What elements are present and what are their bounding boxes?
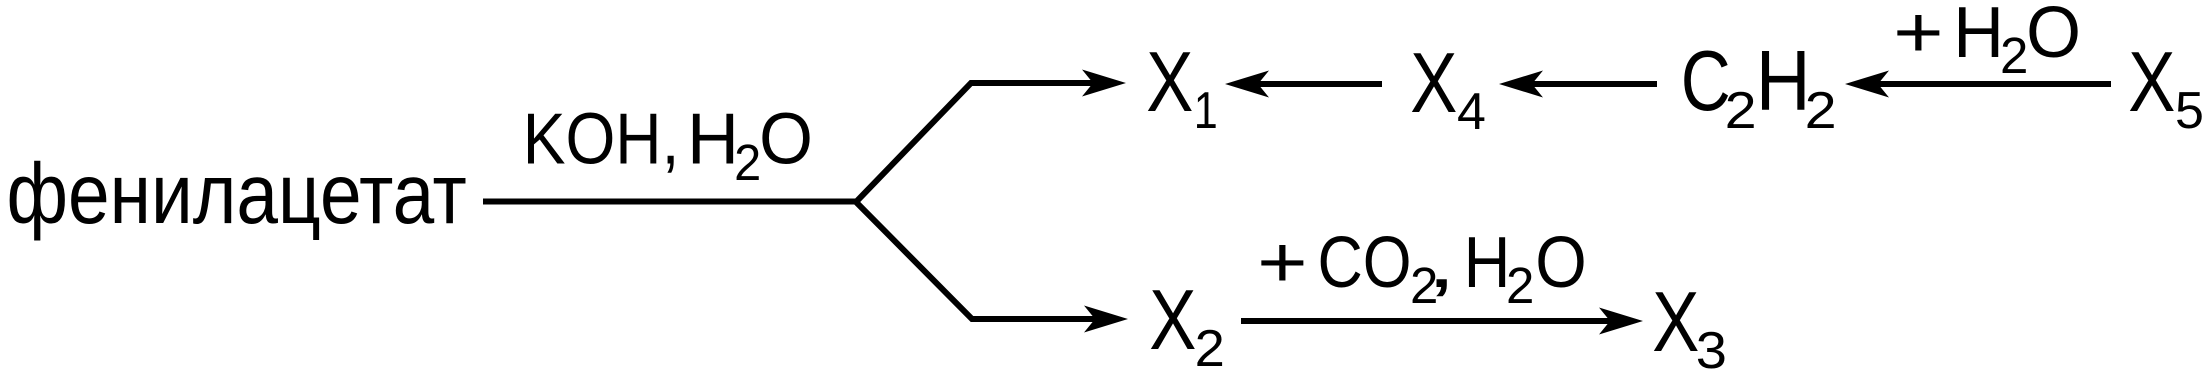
svg-text:3: 3 xyxy=(1696,322,1727,374)
svg-text:фенилацетат: фенилацетат xyxy=(7,147,467,242)
arrow X4 to X1 head (points left) xyxy=(1225,71,1269,98)
svg-text:4: 4 xyxy=(1457,83,1486,141)
svg-text:H: H xyxy=(687,100,739,180)
svg-text:X: X xyxy=(1410,36,1457,131)
svg-text:X: X xyxy=(2128,35,2175,130)
wire: main horizontal line from reactant to fork vertex xyxy=(483,199,857,205)
svg-text:X: X xyxy=(1149,273,1196,368)
wire: upper fork branch (diagonal + horizontal) toward X1 xyxy=(856,83,1100,202)
svg-text:+: + xyxy=(1893,0,1944,73)
arrow C2H2 to X4 shaft xyxy=(1529,81,1657,87)
arrow C2H2 to X4 head (points left) xyxy=(1499,71,1543,98)
svg-text:H: H xyxy=(1953,0,2004,73)
svg-text:KOH,: KOH, xyxy=(523,100,680,180)
arrow X4 to X1 shaft xyxy=(1255,81,1382,87)
svg-text:O: O xyxy=(1535,223,1587,303)
svg-text:CO: CO xyxy=(1318,223,1412,303)
svg-text:X: X xyxy=(1146,35,1193,130)
arrow X5 to C2H2 shaft xyxy=(1875,81,2111,87)
svg-text:2: 2 xyxy=(1725,82,1757,140)
svg-text:C: C xyxy=(1681,34,1731,129)
svg-text:,: , xyxy=(1427,223,1457,303)
svg-text:X: X xyxy=(1652,275,1699,370)
svg-text:2: 2 xyxy=(734,134,761,191)
svg-text:2: 2 xyxy=(1195,320,1225,374)
wire: lower fork branch (diagonal + horizontal) toward X2 xyxy=(856,202,1102,319)
svg-text:2: 2 xyxy=(2000,27,2028,84)
svg-text:1: 1 xyxy=(1194,82,1218,140)
svg-text:5: 5 xyxy=(2175,82,2204,140)
svg-text:2: 2 xyxy=(1805,82,1837,140)
arrowhead pointing right at X1 xyxy=(1082,70,1126,97)
svg-text:H: H xyxy=(1464,223,1511,303)
arrow X2 to X3 head (points right) xyxy=(1599,308,1643,335)
svg-text:+: + xyxy=(1257,223,1308,303)
svg-text:O: O xyxy=(2026,0,2081,73)
arrow X5 to C2H2 head (points left) xyxy=(1845,71,1889,98)
svg-text:H: H xyxy=(1756,34,1811,129)
arrow X2 to X3 shaft xyxy=(1241,318,1613,324)
arrowhead pointing right at X2 xyxy=(1084,306,1128,333)
svg-text:2: 2 xyxy=(1506,257,1534,314)
svg-text:O: O xyxy=(759,100,813,180)
